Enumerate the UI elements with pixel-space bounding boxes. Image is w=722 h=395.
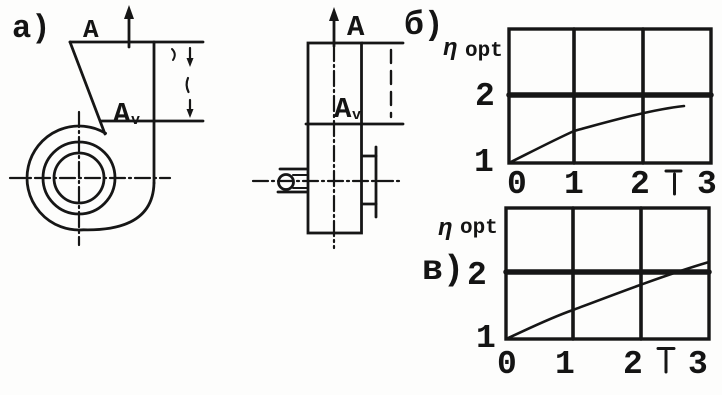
graph v x labels (497, 346, 708, 383)
motor hub circle (279, 175, 294, 190)
svg-text:1: 1 (474, 144, 494, 181)
side view top line extension (362, 42, 403, 45)
svg-text:2: 2 (630, 166, 650, 203)
svg-text:0: 0 (507, 166, 527, 203)
graph b level-2 line (509, 92, 711, 98)
motor shaft line top (293, 174, 307, 176)
graph b y label 1 (474, 144, 494, 181)
graph v label eta (438, 216, 452, 243)
graph v gridline x=2 (639, 208, 643, 339)
graph v gridline x=1 (571, 208, 575, 339)
center line vertical (left view) (78, 112, 80, 245)
svg-text:2: 2 (623, 346, 643, 383)
duct right wall (left view) (153, 42, 156, 183)
graph b x label I-bar (666, 171, 681, 194)
motor shaft line bottom (293, 187, 307, 189)
Av section line (side view) (306, 123, 403, 126)
svg-text:v: v (352, 107, 361, 124)
svg-text:A: A (334, 93, 352, 126)
graph b frame (509, 29, 711, 163)
flow arrow up (side view) (329, 7, 339, 46)
svg-text:2: 2 (475, 78, 495, 115)
svg-text:opt: opt (460, 217, 498, 240)
side view casing rectangle (308, 43, 362, 233)
graph v frame (506, 208, 709, 339)
svg-text:η: η (443, 36, 457, 63)
motor bracket top (280, 168, 307, 171)
graph b gridline x=2 (641, 29, 645, 163)
svg-text:opt: opt (465, 40, 503, 63)
graph b label eta (443, 36, 457, 63)
flow arrow up (left view) (124, 5, 134, 47)
svg-text:1: 1 (564, 166, 584, 203)
svg-text:2: 2 (467, 257, 487, 294)
dashed dimension line with down arrows (187, 48, 194, 118)
svg-text:1: 1 (476, 320, 496, 357)
graph v y label 2 (467, 257, 487, 294)
svg-text:б): б) (404, 7, 444, 44)
inlet flange top line (362, 155, 376, 158)
graph b label opt (465, 40, 503, 63)
label в) (422, 250, 464, 290)
graph v efficiency curve (506, 262, 709, 339)
horizontal centerline (side view / motor axis) (253, 180, 400, 182)
center line horizontal (left view) (10, 177, 170, 179)
label a) (12, 10, 50, 47)
graph b x labels (507, 166, 717, 203)
svg-text:в): в) (422, 250, 464, 290)
svg-text:A: A (347, 11, 365, 44)
svg-text:0: 0 (497, 346, 517, 383)
graph v label opt (460, 217, 498, 240)
dashed line (side view) (390, 50, 392, 117)
inlet flange bottom line (362, 203, 376, 206)
graph v x label I-bar (658, 349, 674, 373)
label Av (side view) (334, 93, 361, 126)
svg-text:A: A (83, 15, 99, 45)
svg-text:3: 3 (688, 346, 708, 383)
inlet flange vertical (side view) (375, 147, 378, 217)
svg-text:1: 1 (555, 346, 575, 383)
vertical centerline (side view) (333, 46, 335, 248)
slanted duct wall (70, 42, 105, 134)
label A (side view) (347, 11, 365, 44)
svg-text:3: 3 (697, 166, 717, 203)
impeller outer circle (43, 142, 115, 214)
svg-text:A: A (113, 98, 131, 131)
motor bracket bottom (278, 191, 307, 194)
graph v level-2 line (506, 269, 709, 275)
svg-text:η: η (438, 216, 452, 243)
Av section line (left view) (101, 120, 203, 123)
volute casing outline (27, 126, 154, 230)
graph v y label 1 (476, 320, 496, 357)
label б) (404, 7, 444, 44)
label A (left view) (83, 15, 99, 45)
graph b gridline x=1 (572, 29, 576, 163)
graph b efficiency curve (509, 106, 684, 163)
outlet duct top line (left view) (70, 41, 203, 44)
impeller inner circle (54, 153, 104, 203)
label Av (left view) (113, 98, 140, 131)
graph b y label 2 (475, 78, 495, 115)
svg-text:a): a) (12, 10, 50, 47)
tick mark ) (172, 49, 175, 60)
